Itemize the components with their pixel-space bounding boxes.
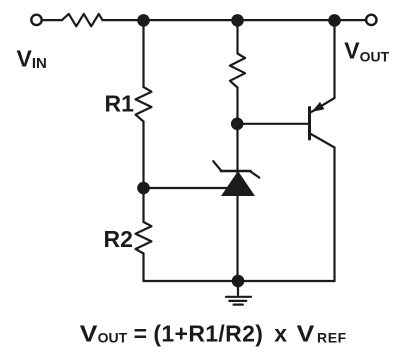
node (junction dot, top of reference branch) — [231, 14, 244, 27]
resistor (zener bias, unlabeled, vertical zigzag) — [230, 54, 245, 88]
svg-text:R2: R2 — [104, 226, 133, 252]
wire middle branch top — [236, 20, 238, 53]
node (junction dot, VOUT / emitter) — [328, 14, 341, 27]
wire input terminal to series resistor — [42, 19, 62, 21]
label R1 — [105, 91, 135, 117]
wire top rail down to R1 — [142, 20, 144, 87]
svg-text:V: V — [80, 322, 98, 347]
resistor R1 (vertical zigzag) — [136, 87, 152, 122]
terminal VOUT (output open circle) — [366, 15, 376, 25]
resistor (series input, unlabeled, horizontal zigzag) — [62, 14, 103, 26]
node (junction dot, R1/R2 feedback node) — [137, 182, 150, 195]
node (junction dot, top of R1 branch) — [137, 14, 150, 27]
diode D1 zener (VREF, cathode up) — [213, 161, 259, 196]
svg-text:R1: R1 — [105, 91, 135, 117]
svg-text:REF: REF — [317, 329, 347, 345]
terminal VIN (input open circle) — [31, 15, 41, 25]
formula VOUT = (1+R1/R2) x VREF — [80, 320, 347, 347]
svg-text:=: = — [134, 320, 147, 346]
svg-text:VOUT: VOUT — [344, 37, 389, 64]
svg-text:OUT: OUT — [98, 329, 128, 345]
wire R2 bottom to ground rail — [142, 254, 144, 282]
node (junction dot, base drive node) — [231, 118, 244, 131]
wire bottom ground rail — [144, 280, 335, 282]
label VIN — [17, 45, 47, 71]
svg-text:V: V — [297, 322, 315, 347]
wire top rail (resistor to VOUT node) — [103, 19, 335, 21]
wire collector down to ground rail — [333, 148, 335, 282]
node (junction dot, ground) — [232, 275, 245, 288]
label VOUT — [344, 37, 389, 64]
wire middle branch (resistor to zener to ground rail) — [236, 88, 238, 282]
wire base (node to transistor base) — [238, 123, 310, 125]
transistor Q1 (PNP pass transistor) — [310, 98, 335, 148]
ground — [226, 281, 251, 305]
wire R1 bottom to feedback node — [142, 122, 144, 223]
wire emitter (VOUT node down) — [333, 20, 335, 98]
wire top rail to output terminal — [335, 19, 367, 21]
label R2 — [104, 226, 133, 252]
resistor R2 (vertical zigzag) — [136, 222, 152, 254]
svg-text:(1+R1/R2): (1+R1/R2) — [153, 320, 263, 346]
svg-text:x: x — [274, 320, 287, 346]
svg-text:VIN: VIN — [17, 45, 47, 71]
wire feedback node to zener anode — [144, 187, 234, 189]
